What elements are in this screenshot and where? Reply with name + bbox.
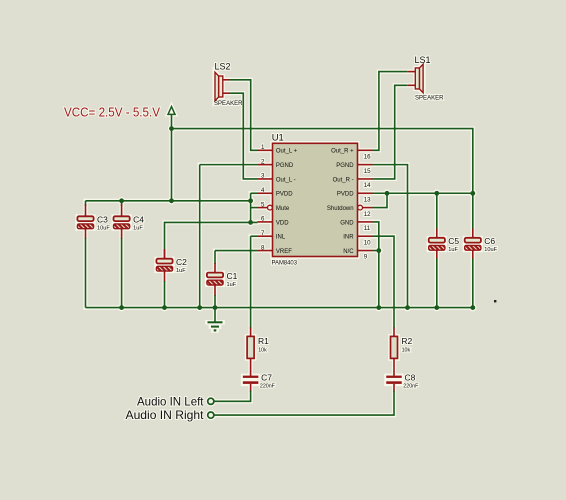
svg-text:INL: INL [276, 235, 286, 241]
svg-text:R2: R2 [401, 336, 412, 346]
svg-text:1uF: 1uF [227, 282, 237, 288]
svg-text:LS1: LS1 [415, 55, 431, 65]
svg-text:C7: C7 [261, 373, 272, 383]
svg-text:7: 7 [261, 230, 265, 237]
svg-text:C6: C6 [484, 236, 495, 246]
svg-text:R1: R1 [258, 336, 269, 346]
svg-text:220nF: 220nF [403, 384, 419, 390]
svg-text:10uF: 10uF [97, 226, 110, 232]
svg-text:10: 10 [364, 239, 371, 246]
svg-text:C4: C4 [133, 215, 144, 225]
svg-text:10uF: 10uF [484, 247, 497, 253]
svg-text:3: 3 [261, 173, 265, 180]
svg-text:PGND: PGND [276, 163, 294, 169]
svg-text:9: 9 [364, 254, 368, 261]
svg-text:12: 12 [364, 211, 371, 218]
svg-text:U1: U1 [272, 133, 284, 144]
svg-text:13: 13 [364, 196, 371, 203]
svg-text:6: 6 [261, 216, 265, 223]
svg-text:Audio IN Right: Audio IN Right [126, 409, 205, 422]
svg-text:10k: 10k [402, 348, 411, 354]
svg-text:VDD: VDD [276, 220, 289, 226]
svg-text:8: 8 [261, 244, 265, 251]
svg-text:Out_L -: Out_L - [276, 177, 296, 183]
svg-text:Out_R +: Out_R + [331, 149, 354, 155]
svg-text:Mute: Mute [276, 206, 290, 212]
svg-text:14: 14 [364, 182, 371, 189]
svg-text:C2: C2 [176, 257, 187, 267]
svg-text:2: 2 [261, 158, 265, 165]
svg-text:1uF: 1uF [448, 247, 458, 253]
svg-text:SPEAKER: SPEAKER [415, 95, 444, 102]
svg-text:1uF: 1uF [176, 268, 186, 274]
svg-text:C1: C1 [227, 271, 238, 281]
svg-text:SPEAKER: SPEAKER [214, 100, 243, 107]
svg-text:10k: 10k [258, 348, 267, 354]
svg-text:Shutdown: Shutdown [327, 206, 354, 212]
svg-text:C5: C5 [448, 236, 459, 246]
svg-text:PAM8403: PAM8403 [272, 260, 298, 267]
svg-text:1uF: 1uF [133, 226, 143, 232]
svg-text:Out_L +: Out_L + [276, 149, 298, 155]
svg-text:N/C: N/C [343, 249, 354, 255]
svg-text:C3: C3 [97, 215, 108, 225]
svg-text:C8: C8 [405, 373, 416, 383]
svg-text:PVDD: PVDD [276, 192, 293, 198]
svg-text:Out_R -: Out_R - [333, 177, 354, 183]
svg-text:1: 1 [261, 144, 265, 151]
svg-text:PGND: PGND [336, 163, 354, 169]
svg-text:VCC= 2.5V - 5.5.V: VCC= 2.5V - 5.5.V [64, 105, 160, 120]
svg-text:LS2: LS2 [215, 61, 231, 71]
svg-text:PVDD: PVDD [337, 192, 354, 198]
svg-text:Audio IN Left: Audio IN Left [137, 395, 204, 408]
svg-text:11: 11 [364, 225, 371, 232]
svg-text:16: 16 [364, 154, 371, 161]
svg-text:15: 15 [364, 168, 371, 175]
svg-text:VREF: VREF [276, 249, 292, 255]
svg-text:GND: GND [340, 220, 354, 226]
svg-text:4: 4 [261, 187, 265, 194]
svg-text:220nF: 220nF [260, 384, 276, 390]
svg-text:5: 5 [261, 201, 265, 208]
svg-text:INR: INR [343, 235, 354, 241]
